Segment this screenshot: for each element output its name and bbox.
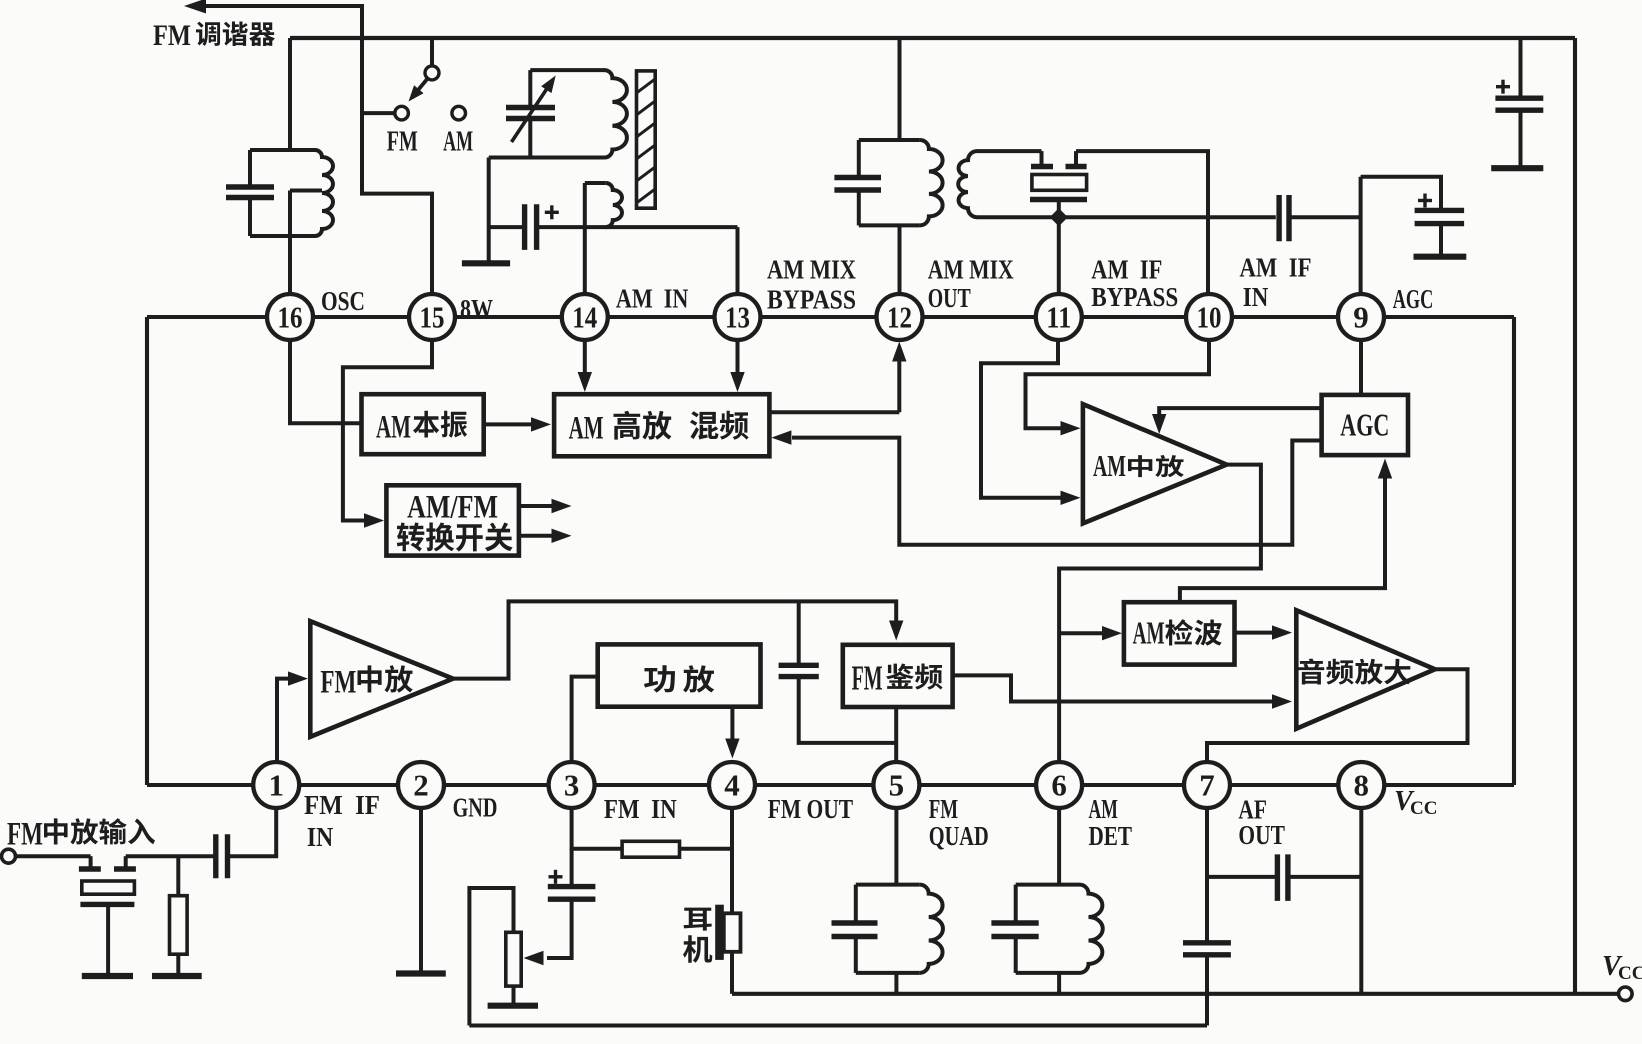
wire pin 8 to VCC rail	[1359, 808, 1363, 994]
svg-text:GND: GND	[453, 793, 498, 823]
wire var-cap left branch	[528, 70, 532, 107]
wire rail drop to pin-12 tank	[898, 38, 902, 140]
OSC tank loop top wire	[250, 148, 315, 152]
svg-text:BYPASS: BYPASS	[767, 284, 856, 314]
arrow pin 14 into mixer	[583, 340, 587, 373]
ceramic filter top leads	[1040, 151, 1044, 164]
svg-text:CC: CC	[1618, 963, 1642, 984]
svg-text:AM: AM	[376, 410, 411, 446]
electrolytic capacitor C7	[570, 849, 574, 887]
arrow AM本振 to mixer	[484, 422, 532, 426]
wire FM tuner feed line	[206, 6, 432, 294]
IC package outline	[147, 315, 1514, 319]
capacitor of pin-6 tank	[991, 920, 1038, 925]
ceramic filter top plates (input)	[79, 866, 101, 871]
svg-text:13: 13	[725, 300, 750, 335]
capacitor C6 input coupling	[213, 834, 218, 878]
svg-text:15: 15	[420, 300, 445, 335]
wire pin 11 to AM IF amp input	[981, 340, 1062, 498]
ceramic filter bottom plate (input)	[80, 902, 134, 907]
inductor of pin-12 tank L4	[920, 140, 943, 225]
wire pot top to bottom rail	[469, 888, 513, 1026]
svg-text:AM: AM	[443, 127, 473, 158]
resistor R2	[622, 841, 679, 857]
wire rail drop to C4	[1519, 38, 1523, 98]
electrolytic capacitor C4 (supply filter)	[1495, 95, 1543, 100]
wire to AGC filter cap	[1361, 177, 1441, 211]
inductor antenna primary coil L2	[604, 70, 627, 157]
wire AGC feedback to mixer	[792, 438, 1322, 545]
svg-text:AM IF: AM IF	[1240, 253, 1312, 283]
wire right border VCC line	[1573, 38, 1577, 994]
block 功放 (power amp)	[598, 644, 761, 706]
amplifier 音频放大 (audio amp)	[1296, 610, 1435, 729]
variable capacitor arrow	[512, 86, 550, 143]
svg-text:OSC: OSC	[321, 286, 365, 316]
potentiometer RP	[506, 932, 521, 986]
ceramic filter bottom plate	[1030, 197, 1087, 202]
svg-text:AM: AM	[569, 411, 604, 447]
wire transformer top	[977, 149, 1042, 153]
wire rail drop to OSC tank	[288, 38, 292, 150]
ceramic filter stem to ground	[106, 904, 110, 976]
wire earphone to VCC rail	[730, 952, 734, 994]
wire transformer bottom rail	[977, 215, 1276, 219]
block FM鉴频 (FM discriminator)	[843, 645, 953, 707]
pin 1	[253, 762, 299, 808]
ground bar (R1)	[152, 973, 202, 979]
arrow switch block output 2	[519, 534, 552, 538]
pin 14	[562, 294, 608, 340]
wire audio amp output to pin 7	[1207, 669, 1468, 762]
wire pin 1 to FM IF amp	[277, 679, 289, 762]
wire bottom return rail	[469, 1024, 1207, 1028]
svg-text:FM: FM	[852, 659, 883, 698]
label 耳机	[684, 908, 712, 931]
wire pin 2 to ground	[419, 808, 423, 972]
arrow AM detector to audio amp	[1235, 631, 1274, 635]
wire to ground from loop	[487, 158, 491, 264]
inductor of OSC tank (tapped coil L1)	[315, 150, 333, 236]
arrow pin 13 into mixer	[736, 340, 740, 373]
svg-text:16: 16	[278, 300, 303, 335]
switch FM contact	[395, 106, 409, 120]
svg-text:4: 4	[724, 768, 740, 803]
tank loop at pin 12 top/bottom wires	[859, 138, 920, 142]
ceramic filter resonator body	[1032, 175, 1087, 191]
wire pin 12 tank top stub	[898, 225, 902, 294]
wire C1 to pin 13 drop	[537, 225, 738, 229]
svg-text:FM: FM	[387, 127, 418, 158]
ceramic filter leads (input)	[89, 856, 93, 867]
svg-text:FM IN: FM IN	[604, 794, 677, 824]
ceramic filter common stem	[1057, 200, 1061, 218]
wire pin 14 top stub	[583, 183, 587, 294]
wire pin 10 to AM IF amp input	[1026, 340, 1210, 428]
wire pin 7 node	[1207, 808, 1277, 877]
pin 15 bottom wire to AM/FM switch block	[343, 340, 432, 521]
earphone transducer	[715, 905, 724, 960]
ferrite rod (hatched)	[637, 71, 656, 208]
wire AM detector to AGC input	[1180, 478, 1385, 602]
terminal bar of C4	[1491, 165, 1543, 171]
pin 13	[715, 294, 761, 340]
svg-text:BYPASS: BYPASS	[1091, 282, 1178, 312]
wire pin 6 to tank	[1057, 808, 1061, 885]
ground bar (pot)	[488, 1003, 538, 1009]
svg-text:8: 8	[1354, 768, 1370, 803]
wire pin-5 tank to rail	[894, 973, 898, 994]
wire pin 3 node	[572, 808, 623, 849]
svg-text:FM OUT: FM OUT	[768, 794, 853, 824]
svg-text:FM: FM	[7, 817, 43, 853]
wire C7 to volume pot	[547, 899, 572, 958]
svg-text:OUT: OUT	[928, 283, 971, 313]
wire FM discriminator output to audio amp	[953, 675, 1273, 701]
ground bar (antenna loop)	[462, 260, 510, 266]
wire switch pivot stub	[430, 38, 434, 66]
pin 11	[1036, 294, 1082, 340]
wire FM contact to tuner line	[362, 111, 395, 115]
svg-text:FM: FM	[320, 665, 356, 701]
wire C9 bottom to return rail	[1205, 955, 1209, 1026]
svg-text:QUAD: QUAD	[929, 821, 989, 851]
wire AM IF amp output to pin 6 / AM det	[1059, 465, 1261, 762]
pin 5	[873, 762, 919, 808]
svg-text:AM IN: AM IN	[616, 283, 689, 313]
wire C6 to pin 1	[228, 808, 277, 856]
block AM 高放 混频 (AM RF amp / mixer)	[554, 394, 769, 456]
capacitor of OSC tank	[226, 184, 274, 189]
switch arm arrow to FM contact	[416, 78, 428, 93]
svg-text:FM: FM	[153, 19, 191, 52]
OSC tank left branch	[248, 150, 252, 187]
svg-text:FM: FM	[929, 794, 958, 824]
tank loop at pin 6	[1016, 883, 1080, 887]
pin 3	[549, 762, 595, 808]
VCC terminal	[1619, 987, 1633, 1001]
switch pivot contact	[425, 66, 439, 80]
svg-text:7: 7	[1199, 768, 1215, 803]
wire C2 to pin 9 node	[1289, 215, 1361, 219]
inductor of pin-5 tank L6	[920, 885, 943, 973]
capacitor C5 (quadrature)	[779, 663, 819, 668]
svg-text:FM IF: FM IF	[304, 790, 380, 820]
inductor antenna secondary coil L3	[585, 181, 606, 185]
block AM/FM 转换开关 (band switch)	[386, 485, 519, 555]
svg-text:3: 3	[564, 768, 580, 803]
wire pin 5 to tank	[894, 808, 898, 885]
pin 10	[1186, 294, 1232, 340]
arrow power amp output to pin 4	[730, 707, 734, 739]
pin 7	[1184, 762, 1230, 808]
svg-text:AM: AM	[1133, 615, 1165, 651]
pin 9	[1338, 294, 1384, 340]
wire pin 13 top stub	[736, 227, 740, 294]
arrow switch block output 1	[519, 504, 552, 508]
inductor of pin-6 tank L7	[1080, 885, 1103, 973]
electrolytic capacitor C1	[522, 204, 527, 250]
wire input line (right of filter)	[126, 854, 214, 858]
amplifier AM中放 (AM IF amp)	[1083, 404, 1227, 523]
wire coil tap to pin 16	[290, 189, 322, 193]
electrolytic capacitor C3 (AGC)	[1415, 208, 1465, 213]
capacitor C9 pin 7 bypass	[1205, 877, 1209, 943]
capacitor AM IF coupling C2	[1276, 195, 1281, 241]
capacitor of pin-12 tank	[857, 140, 861, 178]
wire pin-6 tank to rail	[1057, 973, 1061, 994]
svg-text:11: 11	[1046, 300, 1071, 335]
wire pot wiper... bottom stem to ground	[512, 986, 516, 1006]
pin 16	[267, 294, 313, 340]
wire transformer top to pin 10	[1076, 151, 1208, 294]
svg-text:6: 6	[1051, 768, 1067, 803]
arrowhead to FM tuner	[184, 0, 206, 14]
svg-text:12: 12	[887, 300, 912, 335]
wire C8 to pin 8 line	[1288, 875, 1361, 879]
wire to quad capacitor	[797, 601, 801, 665]
wire quad cap to pin 5 line	[799, 677, 897, 743]
svg-text:IN: IN	[307, 822, 334, 852]
pin 16 bottom wire to AM local osc	[290, 340, 362, 423]
wire VCC bottom rail	[732, 992, 1619, 996]
wire R2 to pin 4 line	[680, 847, 733, 851]
resistor R1	[176, 856, 180, 896]
terminal bar of C3	[1414, 254, 1467, 260]
wire pin 3 to power amp	[572, 677, 598, 762]
svg-text:AGC: AGC	[1393, 284, 1434, 314]
pin 15	[409, 294, 455, 340]
wire pin 4 to earphone	[730, 808, 734, 913]
wire mixer output to pin 12	[769, 410, 899, 414]
svg-text:AM/FM: AM/FM	[407, 489, 498, 525]
wire to electrolytic C1	[489, 225, 525, 229]
svg-text:OUT: OUT	[1238, 820, 1285, 850]
ground bar (filter)	[82, 973, 133, 979]
block AM检波 (AM detector)	[1124, 602, 1235, 664]
svg-text:9: 9	[1353, 300, 1369, 335]
svg-text:AM IF: AM IF	[1091, 254, 1162, 284]
pin 4	[709, 762, 755, 808]
svg-text:AM: AM	[1093, 448, 1126, 483]
wire FM discriminator to pin 5	[894, 707, 898, 762]
svg-text:5: 5	[889, 768, 905, 803]
junction node	[1050, 208, 1068, 226]
pin 6	[1036, 762, 1082, 808]
svg-text:14: 14	[572, 300, 597, 335]
svg-text:IN: IN	[1243, 282, 1269, 312]
tank loop at pin 5	[856, 883, 920, 887]
capacitor C8 AF OUT coupling	[1275, 854, 1280, 901]
capacitor of pin-5 tank	[832, 920, 878, 925]
amplifier FM中放 (FM IF amp)	[310, 621, 453, 737]
svg-text:CC: CC	[1410, 798, 1437, 819]
wire input line (left of filter)	[16, 854, 91, 858]
wire top supply rail	[290, 36, 1575, 40]
svg-text:8W: 8W	[460, 294, 493, 324]
IF transformer coil L5	[958, 151, 977, 217]
ceramic filter top plates	[1031, 164, 1053, 169]
pin 8	[1338, 762, 1384, 808]
svg-text:2: 2	[413, 768, 429, 803]
arrow into AM检波	[1059, 631, 1103, 635]
svg-text:AM MIX: AM MIX	[928, 254, 1014, 284]
wire pin 11 top stub	[1057, 217, 1061, 294]
svg-text:1: 1	[268, 768, 284, 803]
pin 12	[877, 294, 923, 340]
wire FM IF amp output to FM discriminator	[453, 601, 896, 678]
input terminal	[2, 849, 16, 863]
ceramic filter body (input)	[82, 881, 135, 894]
wire AGC to AM IF amp top	[1159, 408, 1321, 415]
wire pin 9 top stub	[1359, 177, 1363, 294]
switch AM contact (open)	[452, 106, 466, 120]
wire pin 9 to AGC block	[1359, 340, 1363, 395]
block AM本振 (AM local oscillator)	[362, 394, 484, 454]
wire var-cap loop bottom	[489, 156, 605, 160]
wire variable-cap loop top	[530, 68, 605, 72]
svg-text:AGC: AGC	[1340, 406, 1389, 442]
svg-text:DET: DET	[1089, 821, 1133, 851]
svg-text:AM MIX: AM MIX	[767, 254, 856, 284]
OSC tank bottom wire	[250, 234, 315, 238]
svg-text:10: 10	[1197, 300, 1222, 335]
block AGC	[1322, 395, 1408, 455]
ground bar (pin 2)	[396, 970, 446, 976]
pin 2	[398, 762, 444, 808]
variable capacitor CV plates	[506, 105, 555, 110]
svg-text:AM: AM	[1089, 794, 1118, 824]
